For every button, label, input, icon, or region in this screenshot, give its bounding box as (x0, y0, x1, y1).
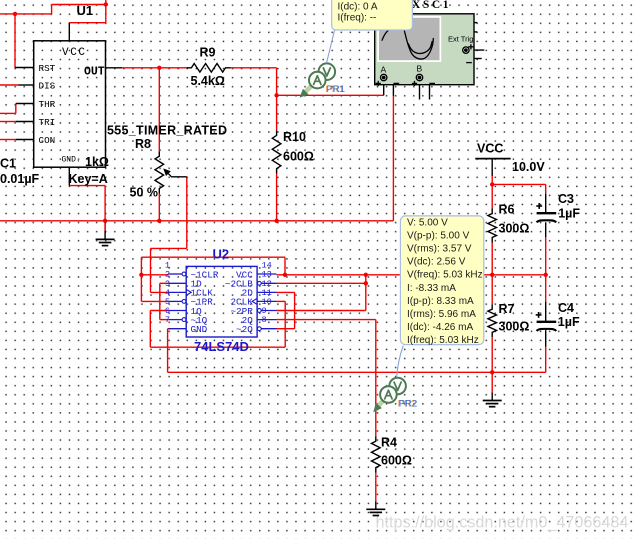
svg-text:600Ω: 600Ω (381, 454, 412, 468)
svg-text:I(p-p): 8.33 mA: I(p-p): 8.33 mA (407, 296, 474, 307)
svg-text:~2Q: ~2Q (236, 324, 253, 335)
svg-text:GND.: GND. (62, 156, 81, 165)
svg-text:V: 5.00 V: V: 5.00 V (407, 218, 448, 229)
svg-text:1µF: 1µF (558, 206, 580, 220)
svg-text:V(p-p): 5.00 V: V(p-p): 5.00 V (407, 231, 470, 242)
svg-text:B: B (417, 64, 423, 74)
svg-text:V(rms): 3.57 V: V(rms): 3.57 V (407, 244, 472, 255)
svg-text:R8: R8 (135, 137, 151, 151)
svg-text:C3: C3 (558, 192, 574, 206)
svg-text:I(freq): --: I(freq): -- (338, 13, 377, 24)
svg-text:R10: R10 (283, 130, 306, 144)
svg-text:I(dc): -4.26 mA: I(dc): -4.26 mA (407, 322, 473, 333)
svg-text:0.01µF: 0.01µF (0, 172, 40, 186)
svg-text:R7: R7 (499, 302, 515, 316)
svg-text:600Ω: 600Ω (283, 150, 314, 164)
svg-text:U2: U2 (213, 247, 230, 262)
svg-text:I(dc): 0 A: I(dc): 0 A (338, 1, 378, 12)
svg-text:1µF: 1µF (558, 315, 580, 329)
svg-text:C1: C1 (0, 157, 16, 171)
svg-text:300Ω: 300Ω (499, 222, 530, 236)
svg-text:R6: R6 (499, 203, 515, 217)
svg-text:U1: U1 (77, 3, 94, 18)
svg-text:Ext Trig: Ext Trig (448, 35, 473, 44)
svg-text:I(freq): 5.03 kHz: I(freq): 5.03 kHz (407, 335, 479, 346)
svg-text:300Ω: 300Ω (499, 320, 530, 334)
svg-text:CON: CON (39, 135, 56, 146)
svg-text:I: -8.33 mA: I: -8.33 mA (407, 283, 456, 294)
svg-text:7: 7 (165, 315, 170, 325)
svg-text:74LS74D: 74LS74D (194, 339, 249, 354)
svg-text:GND: GND (191, 324, 208, 335)
svg-text:8: 8 (262, 315, 267, 325)
svg-text:555_TIMER_RATED: 555_TIMER_RATED (107, 124, 227, 138)
svg-text:50 %: 50 % (130, 186, 159, 200)
svg-text:R4: R4 (381, 436, 397, 450)
svg-text:I(rms): 5.96 mA: I(rms): 5.96 mA (407, 309, 476, 320)
svg-text:5.4kΩ: 5.4kΩ (191, 74, 225, 88)
svg-text:VCC: VCC (477, 142, 503, 156)
svg-text:PR2: PR2 (399, 398, 417, 409)
svg-text:THR: THR (39, 99, 56, 110)
svg-text:https://blog.csdn.net/m0_47066: https://blog.csdn.net/m0_47066484 (376, 513, 629, 531)
svg-text:DIS: DIS (39, 80, 56, 91)
svg-text:OUT: OUT (84, 65, 105, 78)
svg-text:TRI: TRI (39, 117, 56, 128)
svg-text:VCC: VCC (62, 47, 87, 59)
svg-text:V(freq): 5.03 kHz: V(freq): 5.03 kHz (407, 270, 483, 281)
svg-text:R9: R9 (200, 46, 216, 60)
svg-text:10.0V: 10.0V (512, 160, 545, 174)
svg-text:RST: RST (39, 63, 56, 74)
svg-text:V(dc): 2.56 V: V(dc): 2.56 V (407, 257, 466, 268)
svg-text:C4: C4 (558, 301, 574, 315)
svg-text:Key=A: Key=A (69, 172, 108, 186)
svg-text:XSC1: XSC1 (412, 0, 451, 11)
svg-text:1kΩ: 1kΩ (85, 155, 109, 169)
svg-text:A: A (381, 65, 387, 75)
svg-text:PR1: PR1 (327, 84, 345, 95)
